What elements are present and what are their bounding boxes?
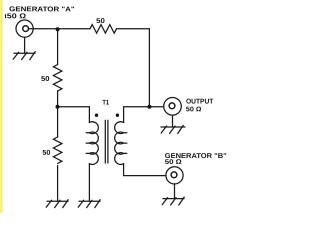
wire: resistor R1 to top-right corner and down (117, 29, 150, 106)
connector J3 GENERATOR B (166, 167, 183, 184)
wire: R3 to ground (57, 166, 59, 202)
yellow page-edge stripe (0, 0, 2, 213)
svg-text:50: 50 (41, 76, 50, 83)
svg-text:50: 50 (96, 18, 105, 25)
wire: generator A to ground (24, 37, 26, 53)
wire: secondary bottom to generator B (124, 164, 166, 176)
svg-text:50 Ω: 50 Ω (7, 13, 26, 20)
connector J1 GENERATOR A (16, 20, 33, 37)
node: junction top-left (56, 27, 60, 31)
ground (generator A) (13, 52, 35, 60)
wire: R2 to junction B to R3 (57, 91, 59, 137)
wire: generator A to junction and resistor (29, 28, 91, 30)
node: polarity dot primary (95, 114, 98, 117)
ground (output) (161, 125, 185, 133)
ground (under transformer primary) (78, 200, 100, 208)
svg-text:50: 50 (42, 150, 50, 157)
node: junction mid-left (56, 105, 60, 109)
ground (generator B) (162, 197, 184, 205)
svg-text:OUTPUT: OUTPUT (186, 98, 214, 105)
resistor R2 50 (upper left vertical) (53, 65, 62, 92)
transformer T1 core (105, 120, 108, 163)
svg-text:50 Ω: 50 Ω (165, 159, 182, 166)
node: polarity dot secondary (116, 114, 119, 117)
wire: secondary top to output junction (124, 107, 164, 123)
wire: junction down to R2 (57, 29, 59, 64)
wire: generator B to ground (174, 184, 176, 199)
resistor R3 50 (lower left vertical) (53, 137, 62, 163)
node: junction right (output) (147, 105, 151, 109)
wire: primary bottom to ground (88, 164, 90, 201)
transformer T1 primary winding (86, 122, 98, 165)
resistor R1 50 (top horizontal) (90, 25, 117, 34)
wire: junction to transformer primary top (58, 107, 90, 123)
transformer T1 secondary winding (115, 122, 127, 165)
label 50 ohm (generator A) (5, 14, 7, 18)
connector J2 OUTPUT (164, 98, 182, 116)
svg-text:T1: T1 (102, 99, 109, 106)
svg-text:50 Ω: 50 Ω (186, 106, 202, 113)
wire: output connector to ground (172, 115, 174, 127)
ground (left bottom, under resistors) (46, 200, 68, 208)
svg-text:GENERATOR "A": GENERATOR "A" (9, 6, 75, 13)
